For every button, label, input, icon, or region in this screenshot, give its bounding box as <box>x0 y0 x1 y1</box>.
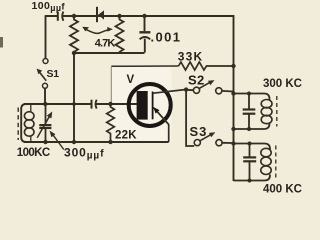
svg-text:300 KC: 300 KC <box>263 78 302 90</box>
wire collector to S2 <box>186 89 193 91</box>
transistor V <box>129 84 186 142</box>
wire R1R2 bottom rail <box>74 52 145 54</box>
svg-text:4.7K: 4.7K <box>95 38 116 50</box>
wire right bus <box>233 15 235 181</box>
wire tank1 bottom <box>234 123 270 129</box>
wire tie S2/S3 left contacts <box>186 90 194 146</box>
node collector junction <box>184 87 188 91</box>
resistor R2 4.7K right <box>116 16 124 53</box>
resistor R3 22K <box>107 104 115 142</box>
wire S1 to grid line <box>44 88 46 104</box>
switch S3 <box>194 132 222 146</box>
wire S2 to bus <box>222 90 234 93</box>
wire left drop to S1 <box>45 15 47 58</box>
wire tank2 top <box>234 144 271 151</box>
switch S2 <box>193 80 222 94</box>
potentiometer arrow across 4.7K <box>82 27 113 34</box>
wire S3 to bus <box>222 142 234 144</box>
capacitor C6 <box>243 144 256 181</box>
diode CR1 <box>97 7 104 22</box>
svg-text:S3: S3 <box>190 124 208 139</box>
svg-text:V: V <box>127 74 135 86</box>
node: 22K top junction <box>108 102 112 106</box>
svg-text:22K: 22K <box>115 130 137 142</box>
wire grid line <box>24 103 137 105</box>
svg-text:400 KC: 400 KC <box>263 184 302 196</box>
switch S1 <box>37 59 48 89</box>
capacitor C3 .001 <box>139 16 150 53</box>
svg-text:.001: .001 <box>151 30 182 45</box>
tank loop left corners <box>21 104 26 142</box>
wire 33K left wire <box>111 65 178 67</box>
wire top rail <box>46 15 234 17</box>
variable capacitor C4 300uuf <box>37 104 51 142</box>
capacitor C1 100uuf <box>58 12 64 21</box>
svg-text:S2: S2 <box>188 73 205 88</box>
inductor L1 100KC <box>24 105 34 142</box>
node: R1 ground wire crossing <box>72 102 76 106</box>
resistor R4 33K <box>179 62 234 70</box>
node: S1/tank/C4 junction <box>43 102 47 106</box>
svg-text:100KC: 100KC <box>17 147 50 159</box>
wire tank1 top <box>234 94 270 101</box>
inductor L2 300KC <box>261 100 272 124</box>
wire bottom rail <box>24 141 169 143</box>
wire R1R2 ground drop <box>73 53 75 142</box>
capacitor C5 <box>243 94 256 130</box>
resistor R1 4.7K left <box>70 16 78 53</box>
svg-text:S1: S1 <box>47 68 60 80</box>
label 300uuf with leader <box>52 134 64 150</box>
inductor L3 400KC <box>261 148 271 174</box>
capacitor C2 grid coupling <box>92 100 97 109</box>
svg-text:33K: 33K <box>178 50 204 64</box>
wire tank2 bottom <box>234 175 271 181</box>
